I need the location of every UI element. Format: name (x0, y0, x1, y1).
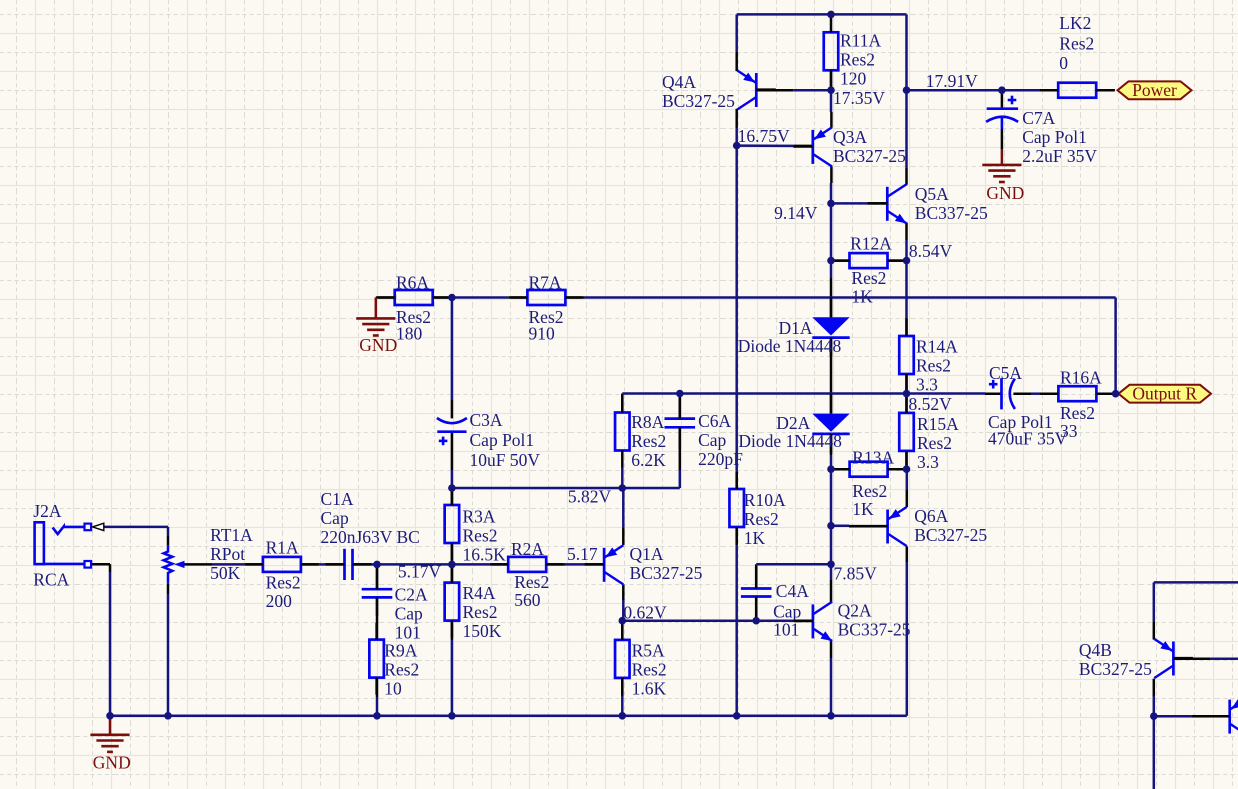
wire out rail a (622, 392, 985, 395)
wire C5A right pin (1013, 392, 1031, 395)
capacitor C1A (321, 489, 420, 580)
junction node 17.91V (903, 86, 911, 94)
wire rail 297 drop (1114, 298, 1117, 394)
wire D1A anode pin (830, 278, 833, 317)
wire C4A top pin (755, 564, 758, 587)
wire pot wiper pin (184, 563, 212, 566)
svg-text:6.2K: 6.2K (631, 450, 666, 470)
svg-text:RT1A: RT1A (210, 525, 253, 545)
label C4A value (773, 602, 801, 640)
wire R12A left pin (831, 259, 849, 262)
svg-text:Res2: Res2 (1059, 34, 1094, 54)
wire Q6A base rail (831, 524, 849, 527)
svg-text:Res2: Res2 (851, 268, 886, 288)
svg-text:10uF 50V: 10uF 50V (470, 450, 541, 470)
ground GND near C7A (982, 149, 1024, 203)
svg-text:R15A: R15A (917, 414, 959, 434)
transistor Q2A (793, 601, 910, 641)
label 9.14V (774, 203, 818, 223)
svg-text:RPot: RPot (210, 544, 245, 564)
potentiometer RT1A (164, 525, 254, 583)
wire top rail right drop (905, 14, 908, 168)
svg-text:GND: GND (359, 335, 397, 355)
transistor Q6A (849, 506, 987, 546)
junction node Q4B collector (1150, 712, 1158, 720)
wire Q4B base out (1210, 657, 1238, 660)
wire R14A top pin (905, 318, 908, 336)
wire R3A bottom pin (451, 543, 454, 565)
wire R7A left pin (508, 296, 527, 299)
wire R16A left pin (1039, 392, 1058, 395)
junction node C4A top (827, 561, 835, 569)
resistor R9A (369, 623, 419, 699)
wire Q1A emitter up (622, 488, 625, 528)
wire R13A left pin (831, 468, 850, 471)
wire R12A right pin (888, 259, 907, 262)
wire C1A to node (371, 563, 377, 566)
junction node R12A left (827, 257, 835, 265)
wire R15A top pin (905, 394, 908, 413)
svg-text:R4A: R4A (463, 583, 496, 603)
junction node C1A/C2A (373, 561, 381, 569)
svg-text:1.6K: 1.6K (632, 679, 667, 699)
wire R4A bottom pin (451, 621, 454, 640)
svg-text:R3A: R3A (463, 507, 496, 527)
junction node output (1112, 390, 1120, 398)
junction node R3A/R4A (448, 561, 456, 569)
capacitor C5A (988, 363, 1068, 449)
svg-text:470uF 35V: 470uF 35V (988, 429, 1068, 449)
port Power (1118, 80, 1192, 100)
svg-text:Q4B: Q4B (1079, 640, 1112, 660)
svg-text:0.62V: 0.62V (623, 603, 667, 623)
svg-text:7.85V: 7.85V (834, 563, 878, 583)
svg-text:Cap: Cap (698, 430, 726, 450)
svg-text:R8A: R8A (631, 412, 664, 432)
wire R5A bottom pin (621, 678, 624, 696)
wire C1A right pin (353, 563, 372, 566)
wire Q2A base pin (794, 619, 813, 622)
junction node gnd tap (106, 712, 114, 720)
svg-text:10: 10 (384, 678, 402, 698)
svg-text:Res2: Res2 (840, 50, 875, 70)
svg-text:C7A: C7A (1022, 108, 1055, 128)
svg-text:8.54V: 8.54V (909, 241, 953, 261)
svg-text:3.3: 3.3 (916, 375, 938, 395)
svg-text:5.17: 5.17 (567, 544, 598, 564)
svg-text:220nJ63V BC: 220nJ63V BC (321, 527, 420, 547)
svg-text:17.91V: 17.91V (926, 71, 978, 91)
svg-text:5.17V: 5.17V (398, 562, 442, 582)
wire R3A col to R2A (452, 563, 490, 566)
wire 9.14V (831, 202, 868, 205)
resistor R11A (824, 15, 882, 88)
transistor Q4A (662, 70, 776, 110)
svg-text:R13A: R13A (852, 448, 894, 468)
svg-text:R6A: R6A (396, 272, 429, 292)
junction node 8.54V (903, 257, 911, 265)
wire R15A to R13A node (905, 466, 908, 469)
wire 5.82V rail (452, 487, 680, 490)
svg-text:Cap Pol1: Cap Pol1 (1022, 127, 1087, 147)
wire rail 297 a (452, 296, 508, 299)
wire C3A top pin (451, 400, 454, 418)
junction node R5A bottom (619, 712, 627, 720)
capacitor C7A (986, 90, 1097, 166)
svg-text:200: 200 (266, 591, 293, 611)
wire R1A right pin (301, 563, 320, 566)
svg-text:Cap: Cap (321, 508, 349, 528)
wire R10A bottom pin (735, 527, 738, 545)
svg-text:BC327-25: BC327-25 (1079, 659, 1152, 679)
svg-text:GND: GND (986, 183, 1024, 203)
svg-text:220pF: 220pF (698, 449, 743, 469)
wire Q5A emitter pin (905, 223, 908, 240)
svg-text:2.2uF 35V: 2.2uF 35V (1022, 146, 1097, 166)
wire C2A bottom pin (376, 597, 379, 616)
wire Q6A collector down (906, 562, 909, 716)
svg-text:Power: Power (1132, 80, 1177, 100)
transistor Q5A (868, 184, 988, 223)
wire C6A top pin (679, 394, 682, 418)
label 5.17 (567, 544, 598, 564)
wire pot bottom pin (167, 583, 170, 594)
svg-text:LK2: LK2 (1059, 13, 1091, 33)
wire 0.62V rail (622, 619, 737, 622)
wire Q4B emitter pin (1153, 622, 1156, 640)
svg-text:BC327-25: BC327-25 (630, 563, 703, 583)
svg-text:Res2: Res2 (917, 433, 952, 453)
wire C2A top pin (376, 564, 379, 589)
wire D2A anode pin (830, 395, 833, 414)
svg-text:Res2: Res2 (916, 356, 951, 376)
svg-text:Cap: Cap (395, 604, 423, 624)
wire C3A top stub (451, 298, 454, 401)
resistor R12A (833, 234, 905, 307)
wire Q4B collector down (1153, 696, 1156, 716)
wire Q1A emitter pin (622, 528, 625, 545)
wire C3A to node (451, 470, 454, 488)
wire Q4A base to node (793, 89, 831, 92)
svg-text:R11A: R11A (840, 31, 882, 51)
wire Q2A collector pin (830, 580, 833, 602)
svg-text:R7A: R7A (529, 272, 562, 292)
junction node C3A bottom (448, 484, 456, 492)
junction node R13A right (903, 465, 911, 473)
wire mid column 203-260 (830, 203, 833, 260)
wire R1A to C1A (320, 563, 326, 566)
junction node Q6A base (827, 522, 835, 530)
wire 17.91V node (907, 89, 1041, 92)
svg-text:Res2: Res2 (744, 509, 779, 529)
wire Q2A base rail (756, 619, 793, 622)
wire Q4A collector down (735, 128, 738, 298)
wire R2A left pin (490, 563, 509, 566)
wire Q4A base pin (756, 89, 793, 92)
junction node 16.75V (733, 142, 741, 150)
wire R1A left pin (244, 563, 263, 566)
wire C6A bottom pin (679, 428, 682, 470)
svg-text:Diode 1N4448: Diode 1N4448 (738, 336, 842, 356)
label 0.62V (623, 603, 667, 623)
wire Q3A collector down (830, 183, 833, 203)
wire R11A top stub (830, 14, 833, 17)
svg-text:Output R: Output R (1132, 384, 1197, 404)
svg-text:33: 33 (1060, 421, 1078, 441)
junction node pot bottom (164, 712, 172, 720)
wire R2A right pin (546, 563, 565, 566)
wire Q5A collector pin (905, 168, 908, 185)
svg-text:1K: 1K (852, 499, 874, 519)
label 8.54V (909, 241, 953, 261)
wire R4A down (451, 640, 454, 716)
resistor LK2 (1041, 13, 1113, 98)
svg-text:16.75V: 16.75V (738, 126, 790, 146)
resistor R14A (899, 319, 958, 395)
junction node R9A bottom (373, 712, 381, 720)
svg-text:R2A: R2A (511, 539, 544, 559)
ground GND near R6A (356, 298, 397, 356)
wire 0.62V rail b (737, 619, 756, 622)
label 16.75V (738, 126, 790, 146)
wire J2A down (109, 572, 112, 716)
junction node 8.52V (903, 390, 911, 398)
resistor R1A (246, 538, 318, 612)
wire pot top drop (167, 527, 170, 536)
wire R11A bottom to Q3A (830, 70, 833, 112)
junction node Q4A base (827, 86, 835, 94)
svg-text:BC337-25: BC337-25 (838, 620, 911, 640)
svg-text:8.52V: 8.52V (909, 394, 953, 414)
junction node R13A left (827, 465, 835, 473)
svg-text:Q2A: Q2A (838, 601, 872, 621)
svg-text:180: 180 (396, 323, 423, 343)
ground GND bottom left (90, 716, 130, 773)
wire Q6A emitter up (906, 469, 909, 490)
svg-text:Res2: Res2 (384, 659, 419, 679)
wire Q1A base pin (585, 563, 604, 566)
wire Q6A base pin (849, 525, 888, 528)
svg-text:Q6A: Q6A (914, 506, 948, 526)
resistor R8A (615, 396, 666, 471)
wire Q3B base pin (1191, 715, 1229, 718)
wire Q6A emitter pin (906, 490, 909, 507)
svg-text:0: 0 (1059, 53, 1068, 73)
svg-text:Res2: Res2 (632, 660, 667, 680)
wire B drop (1153, 582, 1156, 622)
svg-text:3.3: 3.3 (917, 452, 939, 472)
wire C4A bottom pin (755, 598, 758, 621)
wire Q2A emitter pin (830, 641, 833, 658)
svg-text:GND: GND (93, 753, 131, 773)
transistor Q1A (585, 544, 703, 584)
label 17.35V (833, 88, 885, 108)
resistor R16A (1041, 368, 1113, 442)
svg-text:910: 910 (529, 323, 556, 343)
wire mid column 525-564 (830, 526, 833, 565)
label 7.85V (834, 563, 878, 583)
svg-text:R1A: R1A (266, 538, 299, 558)
svg-text:Diode 1N4448: Diode 1N4448 (738, 431, 842, 451)
junction node 5.82V (619, 484, 627, 492)
svg-text:Cap Pol1: Cap Pol1 (470, 430, 535, 450)
wire R9A top pin (376, 619, 379, 640)
svg-text:C5A: C5A (989, 363, 1022, 383)
label 8.52V (909, 394, 953, 414)
wire R7A right pin (566, 296, 585, 299)
diode D2A (738, 394, 849, 454)
capacitor C3A (437, 410, 540, 470)
wire C3A bottom pin (451, 432, 454, 470)
svg-text:Q4A: Q4A (662, 72, 696, 92)
resistor R2A (491, 539, 563, 610)
wire R6A left pin (376, 296, 395, 299)
resistor R10A (729, 472, 786, 548)
svg-text:1K: 1K (744, 528, 766, 548)
wire D2A cathode pin (830, 434, 833, 455)
junction node 9.14V (827, 200, 835, 208)
wire R2A to Q1A (565, 563, 585, 566)
junction node top rail/R11A (827, 11, 835, 19)
wire R16A right pin (1096, 392, 1115, 395)
svg-text:Res2: Res2 (266, 573, 301, 593)
svg-text:BC327-25: BC327-25 (914, 525, 987, 545)
svg-text:R16A: R16A (1060, 368, 1102, 388)
wire rail 297 b (585, 296, 1116, 299)
wire R9A down (376, 697, 379, 716)
svg-text:RCA: RCA (33, 570, 69, 590)
wire wiper to R1A (212, 563, 244, 566)
transistor Q3B (1210, 697, 1238, 736)
wire Q4B base pin (1173, 657, 1210, 660)
wire R8A bottom stub (621, 468, 624, 489)
wire out rail b (1031, 392, 1039, 395)
wire R5A down (621, 696, 624, 716)
wire R10A top pin (735, 472, 738, 489)
svg-text:C2A: C2A (395, 585, 428, 605)
wire R14A bottom pin (905, 375, 908, 394)
wire Q5A base pin (868, 202, 887, 205)
resistor R3A (445, 488, 506, 565)
wire Q2A emitter down (830, 658, 833, 716)
wire C1A left pin (326, 563, 345, 566)
wire Q4B collector pin (1153, 679, 1156, 696)
wire left column low (735, 545, 738, 716)
wire R3A top pin (451, 488, 454, 505)
wire R15A bottom pin (905, 450, 908, 466)
svg-text:9.14V: 9.14V (774, 203, 818, 223)
wire C6A drop (679, 470, 682, 488)
wire Q3A base pin (793, 145, 813, 148)
svg-text:120: 120 (840, 69, 867, 89)
wire R6A right pin (433, 296, 452, 299)
wire D1A to D2A (830, 375, 833, 395)
svg-text:50K: 50K (210, 563, 241, 583)
transistor Q4B (1079, 639, 1193, 679)
svg-text:Q3A: Q3A (833, 127, 867, 147)
wire D1A cathode pin (830, 338, 833, 375)
svg-text:D2A: D2A (776, 413, 810, 433)
wire mid column 260-278 (830, 261, 833, 278)
wire J2A top to pot (104, 526, 168, 529)
wire Q1A collector down (622, 600, 625, 621)
wire top rail (737, 13, 907, 16)
wire Q3A collector pin (830, 166, 833, 183)
wire R9A bottom pin (376, 677, 379, 697)
svg-text:Q1A: Q1A (630, 544, 664, 564)
svg-text:R9A: R9A (384, 640, 417, 660)
resistor R6A (378, 272, 450, 343)
wire R8A top pin (621, 394, 624, 413)
svg-text:R14A: R14A (916, 337, 958, 357)
svg-text:BC337-25: BC337-25 (915, 203, 988, 223)
svg-text:R12A: R12A (850, 234, 892, 254)
label 17.91V (926, 71, 978, 91)
capacitor C4A (741, 567, 809, 619)
wire B bottom down (1153, 716, 1156, 789)
svg-text:Res2: Res2 (514, 572, 549, 592)
junction node C7A tap (998, 86, 1006, 94)
svg-text:Res2: Res2 (463, 526, 498, 546)
wire top rail left drop (735, 14, 738, 52)
svg-text:1K: 1K (851, 287, 873, 307)
svg-text:C6A: C6A (698, 411, 731, 431)
wire left column mid (735, 298, 738, 473)
wire LK2 left pin (1040, 89, 1059, 92)
svg-text:560: 560 (514, 590, 541, 610)
wire mid column 564-580 (830, 564, 833, 580)
junction node C4A bottom (752, 617, 760, 625)
wire Q6A collector pin (906, 546, 909, 562)
svg-text:R10A: R10A (744, 490, 786, 510)
wire pot down (167, 594, 170, 716)
svg-text:Res2: Res2 (463, 602, 498, 622)
wire J2A bottom pin (91, 563, 110, 566)
svg-text:16.5K: 16.5K (463, 545, 507, 565)
junction node R4A bottom (448, 712, 456, 720)
svg-text:C3A: C3A (470, 410, 503, 430)
connector J2A (33, 501, 104, 589)
svg-text:R5A: R5A (632, 641, 665, 661)
svg-text:Cap: Cap (773, 602, 801, 622)
wire Q3A emitter pin (830, 112, 833, 128)
junction node Q2A emitter (827, 712, 835, 720)
wire node to R3A col (377, 563, 452, 566)
resistor R15A (899, 396, 959, 472)
wire R13A right pin (887, 468, 906, 471)
wire Q4A emitter pin (735, 52, 738, 71)
svg-text:BC327-25: BC327-25 (662, 91, 735, 111)
wire R4A top pin (451, 565, 454, 583)
svg-text:C4A: C4A (776, 581, 809, 601)
wire mid column 469-525 (830, 469, 833, 526)
svg-text:J2A: J2A (33, 501, 62, 521)
wire 16.75V (737, 144, 794, 147)
label 5.17V (398, 562, 442, 582)
svg-text:C1A: C1A (321, 489, 354, 509)
svg-text:17.35V: 17.35V (833, 88, 885, 108)
wire bottom rail (110, 715, 907, 718)
svg-text:Res2: Res2 (631, 431, 666, 451)
wire Q5A emitter down (905, 240, 908, 318)
wire pot top pin (167, 536, 170, 545)
wire R5A top pin (621, 621, 624, 640)
junction node R6A/R7A (448, 294, 456, 302)
port Output R (1119, 384, 1212, 404)
resistor R7A (510, 272, 582, 343)
wire B top rail (1154, 581, 1238, 584)
resistor R5A (615, 623, 667, 699)
